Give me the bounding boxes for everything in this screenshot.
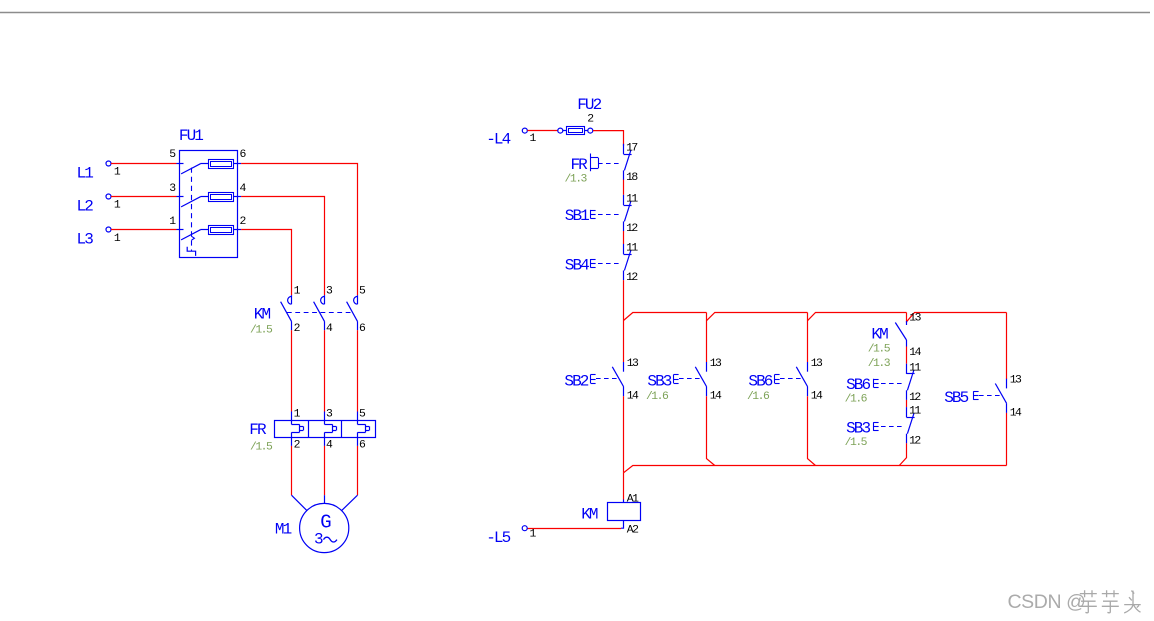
pushbutton SB4 (NC) xyxy=(591,244,632,280)
thermal overload relay FR box xyxy=(275,420,376,437)
wire xyxy=(234,229,242,231)
svg-text:FU2: FU2 xyxy=(577,96,601,114)
FU1 operating handle xyxy=(187,247,195,256)
wire branch SB5 xyxy=(1006,313,1008,380)
pushbutton SB6 (NO) xyxy=(775,362,808,396)
svg-text:L2: L2 xyxy=(77,197,94,215)
label KM aux xyxy=(868,326,891,370)
wire xyxy=(623,500,625,503)
FU1 fuse pole 2 xyxy=(209,193,234,202)
svg-text:12: 12 xyxy=(909,392,921,404)
FU1 switch blade pole 1 xyxy=(177,164,209,174)
svg-text:SB5: SB5 xyxy=(944,389,968,407)
wire branch KM aux xyxy=(906,313,908,323)
wire xyxy=(593,131,624,146)
svg-text:13: 13 xyxy=(1010,375,1022,387)
svg-text:SB6: SB6 xyxy=(748,372,772,390)
KM linkage dashed line xyxy=(287,312,353,314)
svg-text:18: 18 xyxy=(626,172,638,184)
wire xyxy=(623,180,625,195)
fuse FU2 xyxy=(558,127,593,135)
svg-text:13: 13 xyxy=(627,358,639,370)
svg-text:12: 12 xyxy=(626,272,638,284)
terminal -L4 xyxy=(522,128,527,133)
label SB1 xyxy=(565,207,589,225)
FU1 switch blade pole 2 xyxy=(177,197,209,207)
pushbutton SB3 (NO) xyxy=(674,362,707,396)
wire xyxy=(292,495,307,510)
wire xyxy=(324,495,326,503)
svg-text:/1.3: /1.3 xyxy=(868,358,891,370)
wire xyxy=(234,163,242,165)
svg-text:17: 17 xyxy=(626,142,637,154)
wire xyxy=(527,528,621,530)
svg-text:SB4: SB4 xyxy=(565,256,589,274)
wire xyxy=(1006,413,1008,466)
FR heater element pole 3 xyxy=(358,420,370,437)
pushbutton contact SB3 (NC) xyxy=(874,407,915,443)
wire xyxy=(906,347,908,364)
wire xyxy=(291,330,293,411)
top bus wire xyxy=(624,313,1007,322)
terminal -L5 xyxy=(522,526,527,531)
svg-text:A1: A1 xyxy=(627,494,639,506)
svg-text:14: 14 xyxy=(710,391,722,403)
svg-text:14: 14 xyxy=(1010,407,1022,419)
wire xyxy=(527,130,557,132)
svg-text:-L4: -L4 xyxy=(486,130,510,148)
wire xyxy=(623,473,625,500)
wire xyxy=(623,396,625,473)
svg-text:12: 12 xyxy=(909,435,921,447)
svg-text:/1.3: /1.3 xyxy=(565,174,588,186)
svg-text:KM: KM xyxy=(581,505,598,523)
motor M1 xyxy=(300,503,349,552)
svg-text:/1.5: /1.5 xyxy=(250,442,273,454)
wire xyxy=(324,437,326,446)
svg-text:13: 13 xyxy=(710,358,722,370)
wire xyxy=(111,196,177,198)
fuse-switch FU1 enclosure xyxy=(180,151,238,258)
wire xyxy=(623,231,625,244)
wire xyxy=(342,495,358,510)
svg-text:KM: KM xyxy=(871,326,888,344)
svg-text:/1.5: /1.5 xyxy=(250,325,273,337)
wire xyxy=(234,196,242,198)
svg-text:SB3: SB3 xyxy=(846,420,870,438)
thermal contact FR (NC) xyxy=(591,144,632,180)
wire xyxy=(707,396,715,465)
wire xyxy=(324,330,326,411)
wire xyxy=(291,437,293,446)
svg-text:/1.5: /1.5 xyxy=(868,344,891,356)
svg-text:13: 13 xyxy=(811,358,823,370)
watermark CSDN xyxy=(1008,590,1141,613)
svg-text:/1.5: /1.5 xyxy=(845,437,868,449)
svg-text:3: 3 xyxy=(314,531,323,549)
label SB5 xyxy=(944,389,968,407)
label SB3 xyxy=(646,372,672,403)
svg-text:14: 14 xyxy=(811,391,823,403)
contactor KM main contact pole 3 xyxy=(347,295,358,330)
bottom bus wire xyxy=(624,466,1007,473)
svg-text:/1.6: /1.6 xyxy=(845,393,868,405)
FU1 fuse pole 1 xyxy=(209,160,234,169)
svg-text:L1: L1 xyxy=(77,164,94,182)
wire xyxy=(241,197,324,296)
wire xyxy=(241,230,291,296)
svg-text:11: 11 xyxy=(626,243,638,255)
label SB6 xyxy=(747,372,773,403)
label SB6 xyxy=(845,376,871,405)
wire xyxy=(623,280,625,362)
label SB2 xyxy=(564,372,588,390)
wire branch SB3 xyxy=(706,313,708,363)
terminal L2 xyxy=(106,194,111,199)
svg-text:FR: FR xyxy=(249,421,267,439)
wire branch SB6 xyxy=(807,313,809,363)
pushbutton contact SB6 (NC) xyxy=(874,364,915,400)
terminal L3 xyxy=(106,227,111,232)
FU1 switch blade pole 3 xyxy=(177,230,209,240)
FU1 trip striker xyxy=(192,236,195,240)
pushbutton SB2 (NO) xyxy=(591,362,624,396)
svg-text:11: 11 xyxy=(626,193,638,205)
svg-text:13: 13 xyxy=(909,313,921,325)
label FR xyxy=(565,156,589,185)
label SB4 xyxy=(565,256,589,274)
top border line xyxy=(0,12,1150,14)
terminal L1 xyxy=(106,161,111,166)
svg-text:L3: L3 xyxy=(77,231,94,249)
svg-text:11: 11 xyxy=(909,406,921,418)
wire xyxy=(906,400,908,407)
svg-text:14: 14 xyxy=(909,347,921,359)
wire xyxy=(111,229,177,231)
svg-text:M1: M1 xyxy=(275,521,292,539)
wire xyxy=(241,164,357,296)
svg-text:G: G xyxy=(320,511,331,533)
wire xyxy=(111,163,177,165)
pushbutton SB1 (NC) xyxy=(591,195,632,231)
svg-text:A2: A2 xyxy=(627,524,639,536)
svg-text:/1.6: /1.6 xyxy=(747,391,770,403)
contactor coil KM xyxy=(608,503,641,521)
svg-text:SB6: SB6 xyxy=(846,376,870,394)
svg-text:-L5: -L5 xyxy=(486,529,510,547)
wire xyxy=(357,437,359,446)
FR heater element pole 2 xyxy=(325,420,337,437)
contactor KM main contact pole 1 xyxy=(281,295,292,330)
svg-text:KM: KM xyxy=(254,305,271,323)
svg-text:/1.6: /1.6 xyxy=(646,391,669,403)
contactor KM main contact pole 2 xyxy=(314,295,325,330)
svg-text:SB1: SB1 xyxy=(565,207,589,225)
auxiliary contact KM (NO) xyxy=(895,321,906,347)
svg-text:SB2: SB2 xyxy=(564,372,588,390)
svg-text:CSDN @: CSDN @ xyxy=(1008,591,1086,613)
FR heater element pole 1 xyxy=(292,420,304,437)
svg-text:12: 12 xyxy=(626,223,638,235)
svg-text:FR: FR xyxy=(570,156,588,174)
svg-text:FU1: FU1 xyxy=(179,127,203,145)
wire xyxy=(357,330,359,411)
label SB3 xyxy=(845,420,871,449)
svg-text:SB3: SB3 xyxy=(647,372,671,390)
wire xyxy=(621,520,624,528)
svg-text:11: 11 xyxy=(909,362,921,374)
wire xyxy=(808,396,816,465)
FU1 linkage dashed line xyxy=(191,168,193,251)
wire xyxy=(899,443,906,465)
pushbutton SB5 (NO) xyxy=(974,379,1007,413)
svg-text:14: 14 xyxy=(627,391,639,403)
FU1 fuse pole 3 xyxy=(209,226,234,235)
